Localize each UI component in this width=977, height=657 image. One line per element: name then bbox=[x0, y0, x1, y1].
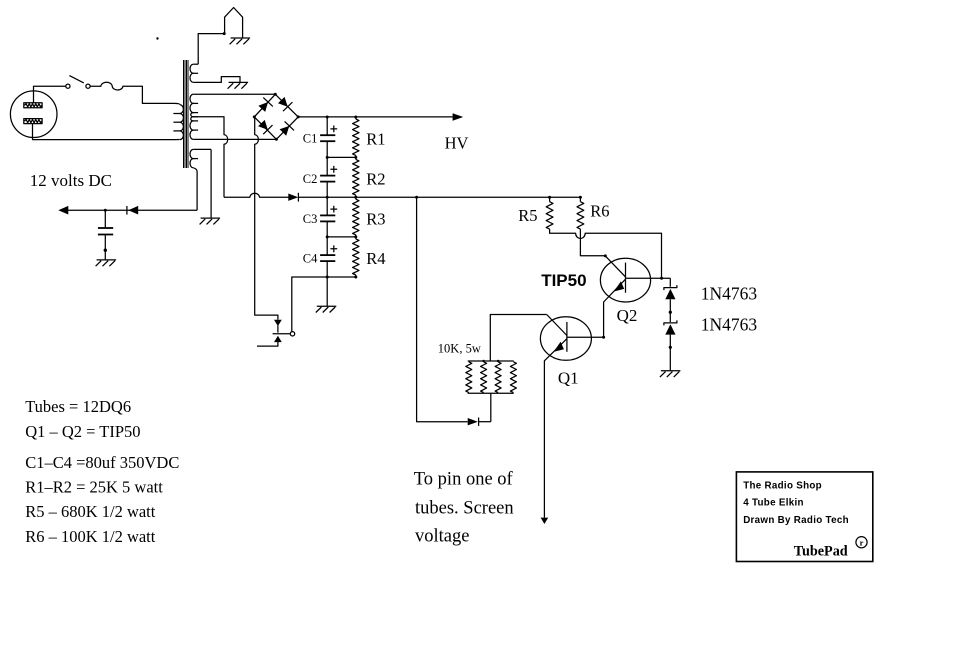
capacitor C3 bbox=[326, 197, 328, 215]
svg-text:HV: HV bbox=[445, 134, 469, 153]
switch S1 bbox=[66, 84, 70, 88]
fuse F1 bbox=[90, 82, 174, 103]
screen rail y197 with hop over bridge-left vertical bbox=[224, 193, 289, 197]
svg-text:R5 – 680K 1/2 watt: R5 – 680K 1/2 watt bbox=[25, 502, 156, 521]
svg-text:voltage: voltage bbox=[415, 527, 469, 547]
wire: plug bottom lead to transformer primary bbox=[33, 124, 177, 140]
svg-text:R2: R2 bbox=[366, 170, 385, 189]
svg-text:R1: R1 bbox=[366, 129, 385, 148]
ground G5 bbox=[661, 370, 681, 372]
plug P1 (12V DC input plug) bbox=[10, 91, 57, 138]
svg-text:C2: C2 bbox=[303, 172, 318, 186]
wire: R5 bottom to Q2 collector node, dip-hop under R6 wire bbox=[550, 229, 662, 278]
bridge diode D2 (top-right) bbox=[278, 97, 288, 107]
transformer T1 primary winding bbox=[175, 103, 180, 104]
svg-text:10K, 5w: 10K, 5w bbox=[438, 342, 481, 356]
transformer T1 12V winding bbox=[193, 148, 211, 150]
transistor Q2 TIP50 bbox=[600, 258, 650, 302]
TubePad title box bbox=[736, 472, 872, 562]
wire: aux winding bottom to ground G2 bbox=[193, 77, 240, 83]
bridge corner nodes bbox=[274, 93, 277, 96]
bridge diode D1 (top-left) bbox=[258, 102, 268, 112]
ground G2 bbox=[229, 81, 249, 83]
transformer T1 core bbox=[183, 60, 185, 168]
down arrow to tube screens bbox=[541, 518, 549, 524]
wire: plug top lead bbox=[34, 86, 66, 103]
bridge rectifier edges bbox=[254, 94, 298, 139]
screen voltage branch: rail down to diode and 10K bank bbox=[417, 197, 468, 422]
wire: C-string to ground G4 bbox=[326, 277, 328, 306]
vibrator contact lower (arrow up) bbox=[274, 336, 282, 342]
diode D7 bbox=[468, 418, 478, 425]
diode D6 on 12V rail bbox=[126, 206, 128, 215]
connector flag (pentagon) bbox=[225, 8, 243, 39]
zener stack wire bbox=[669, 278, 671, 287]
svg-text:C1–C4 =80uf 350VDC: C1–C4 =80uf 350VDC bbox=[25, 453, 179, 472]
zener Z2 1N4763 bbox=[664, 320, 677, 325]
svg-text:R1–R2 = 25K 5 watt: R1–R2 = 25K 5 watt bbox=[25, 478, 163, 497]
svg-text:Drawn By Radio Tech: Drawn By Radio Tech bbox=[743, 515, 849, 526]
capacitor C2 bbox=[326, 157, 328, 175]
svg-text:tubes. Screen: tubes. Screen bbox=[415, 498, 514, 518]
top HV rail bbox=[298, 116, 453, 118]
wire: 12V winding top to ground G3 bbox=[210, 149, 212, 218]
svg-text:R5: R5 bbox=[518, 206, 537, 225]
wire: R6 bottom to Q2 base bbox=[580, 229, 605, 256]
bridge diode D4 (bottom-right) bbox=[280, 126, 290, 136]
stray ink dot bbox=[156, 37, 158, 39]
wire: aux winding top to flag node bbox=[198, 34, 224, 65]
capacitor C5 (12V filter) bbox=[104, 210, 106, 228]
Q2 emitter arrow bbox=[614, 281, 624, 291]
ground G1 (top) bbox=[231, 37, 251, 39]
ground G3 (under transformer) bbox=[201, 217, 221, 219]
zener Z1 1N4763 bbox=[664, 285, 677, 290]
svg-text:Q1 – Q2 = TIP50: Q1 – Q2 = TIP50 bbox=[25, 422, 140, 441]
resistor R6 bbox=[579, 197, 581, 202]
svg-text:Q2: Q2 bbox=[617, 306, 638, 325]
transistor Q1 bbox=[540, 317, 591, 361]
transformer T1 HV secondary winding bbox=[190, 94, 193, 103]
transformer T1 top aux winding bbox=[193, 63, 198, 65]
svg-text:1N4763: 1N4763 bbox=[701, 315, 758, 335]
vibrator contact upper (arrow down) bbox=[274, 320, 282, 326]
svg-text:TIP50: TIP50 bbox=[541, 271, 586, 290]
resistor R4 bbox=[353, 239, 359, 275]
resistor R5 bbox=[549, 197, 551, 202]
svg-text:To pin one of: To pin one of bbox=[414, 470, 514, 490]
wire: HV center tap down, hop around y139.4 line bbox=[193, 117, 227, 198]
ground G6 bbox=[97, 259, 117, 261]
wire: bridge left corner down to vibrator, hop at y139.4 bbox=[255, 117, 278, 320]
svg-text:Tubes = 12DQ6: Tubes = 12DQ6 bbox=[25, 397, 131, 416]
bridge diode D3 (bottom-left) bbox=[258, 120, 268, 130]
svg-text:R6 – 100K 1/2 watt: R6 – 100K 1/2 watt bbox=[25, 527, 156, 546]
wire: vibrator pivot up to C4 bottom row bbox=[292, 277, 327, 332]
HV arrowhead bbox=[453, 113, 464, 121]
svg-text:12 volts DC: 12 volts DC bbox=[30, 171, 112, 190]
diode D5 (center tap to screen rail) bbox=[288, 194, 298, 201]
row link wires and junction dots bbox=[327, 156, 356, 158]
resistor R3 bbox=[353, 199, 359, 235]
svg-text:R4: R4 bbox=[366, 249, 385, 268]
svg-text:TubePad: TubePad bbox=[794, 543, 848, 559]
svg-text:1N4763: 1N4763 bbox=[701, 284, 758, 304]
12V DC rail bbox=[61, 209, 198, 211]
svg-text:R6: R6 bbox=[590, 202, 609, 221]
capacitor C4 bbox=[326, 237, 328, 255]
svg-text:Q1: Q1 bbox=[558, 369, 579, 388]
resistor bank 10K,5w (4 parallel) bbox=[468, 360, 514, 362]
ground G4 bbox=[317, 305, 337, 307]
capacitor C1 bbox=[326, 117, 328, 135]
wire: HV bottom to bridge bottom corner bbox=[193, 138, 276, 140]
svg-text:r: r bbox=[860, 537, 864, 547]
node: junction dot top-left bbox=[223, 32, 226, 35]
svg-text:The Radio Shop: The Radio Shop bbox=[743, 480, 822, 491]
resistor R2 bbox=[353, 159, 359, 195]
wire: HV top to bridge top corner bbox=[193, 93, 275, 95]
svg-text:C4: C4 bbox=[303, 252, 318, 266]
resistor R1 bbox=[353, 119, 359, 155]
svg-text:C3: C3 bbox=[303, 212, 318, 226]
svg-text:C1: C1 bbox=[303, 132, 318, 146]
vibrator contact pivot circle bbox=[290, 332, 294, 336]
svg-text:R3: R3 bbox=[366, 210, 385, 229]
Q1 emitter arrow bbox=[554, 342, 564, 352]
svg-text:4 Tube Elkin: 4 Tube Elkin bbox=[743, 498, 804, 509]
